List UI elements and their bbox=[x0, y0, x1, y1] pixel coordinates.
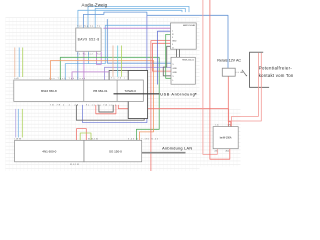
wire sky stub left top bbox=[18, 48, 20, 78]
wire lavender stub left bottom bbox=[15, 109, 17, 138]
wire red relay coil down bbox=[227, 76, 229, 126]
svg-text:31, 31, 1 31: 31, 31, 1 31 bbox=[88, 138, 98, 140]
wire blue amp to main box bbox=[77, 52, 79, 80]
wire salmon stub left top bbox=[14, 48, 16, 78]
relay K1 coil bbox=[222, 68, 235, 76]
svg-text:BAV9 652-8: BAV9 652-8 bbox=[78, 38, 100, 42]
wire lan leader line bbox=[142, 152, 186, 154]
transistor Q4 io module box bbox=[213, 127, 238, 149]
svg-text:9x xx 2a 7A xx x: 9x xx 2a 7A xx x bbox=[86, 103, 116, 106]
svg-text:L a R: L a R bbox=[14, 78, 19, 80]
wire red loop above lan box bbox=[77, 129, 87, 141]
svg-text:3,43 % 7,181 %,45: 3,43 % 7,181 %,45 bbox=[128, 138, 158, 140]
wire lime loop above lan box bbox=[80, 133, 91, 140]
wire purple mid box pin2 bbox=[104, 27, 171, 29]
svg-text:PB 682-01: PB 682-01 bbox=[93, 89, 108, 93]
wire sky stub left bottom bbox=[17, 109, 19, 138]
svg-text:4N1 600-0: 4N1 600-0 bbox=[42, 149, 56, 153]
relay K1 switch lever bbox=[242, 70, 246, 75]
wire blue down right of amp to mid2 pin bbox=[107, 19, 171, 63]
wire audio sky 3 bbox=[78, 10, 182, 27]
capacitor C1 usb hub dark box bbox=[128, 71, 147, 119]
wire orange power rail bbox=[51, 61, 154, 141]
wire royal mid1 to mid2 bbox=[158, 31, 171, 84]
wire red B2 to io box bbox=[118, 105, 231, 127]
op-amp U1 audio amplifier box bbox=[76, 28, 101, 51]
svg-text:24v: 24v bbox=[215, 151, 218, 153]
wire lavender main box to mid2 pin bbox=[105, 67, 172, 80]
node divider 2 bbox=[116, 80, 118, 101]
transistor Q2 power box bbox=[15, 140, 84, 162]
ground bracket bbox=[250, 52, 270, 87]
svg-text:HMW-454-01: HMW-454-01 bbox=[182, 60, 195, 62]
wire periwinkle long relay branch to B2 bbox=[83, 15, 147, 122]
svg-text:kmW-190A: kmW-190A bbox=[220, 137, 232, 140]
wire gray stub mid1 to mid2 a bbox=[176, 49, 178, 57]
wire gray B2 bottom to usb line bbox=[76, 94, 144, 120]
svg-text:Tu Ta Cal Tal: Tu Ta Cal Tal bbox=[77, 54, 102, 56]
wire lime stub above main box bbox=[120, 46, 122, 77]
wire red long to bottom bbox=[151, 41, 171, 171]
wire lime stub left bottom bbox=[21, 109, 23, 138]
transistor Q3 lan gateway box bbox=[84, 140, 142, 162]
op-amp U3 interface box bbox=[171, 57, 195, 84]
wire purple loop under amp bbox=[96, 52, 101, 65]
wire gray loop under main box bbox=[99, 105, 113, 112]
wire red loop under main box bbox=[96, 105, 116, 114]
wire usb leader line bbox=[114, 93, 160, 95]
svg-text:Audio-Zweig: Audio-Zweig bbox=[82, 3, 108, 8]
wire green mid1 to mid2 bbox=[166, 34, 171, 78]
wire audio sky 2 bbox=[95, 8, 185, 27]
svg-text:Lxx Txxh Txk Txxk: Lxx Txxh Txk Txxk bbox=[49, 78, 85, 80]
op-amp U2 dac box bbox=[171, 23, 197, 49]
transistor Q1 main controller box bbox=[14, 80, 144, 101]
wire red 12v feed 2 bbox=[210, 0, 230, 159]
wire sky branch to amp bottom bbox=[88, 52, 90, 64]
svg-text:7B 7H 2 2 2A: 7B 7H 2 2 2A bbox=[50, 103, 79, 106]
node divider 1 bbox=[83, 80, 85, 101]
svg-text:L 18 78: L 18 78 bbox=[15, 138, 21, 140]
svg-text:L in: L in bbox=[216, 125, 219, 127]
svg-text:8N16 650-8: 8N16 650-8 bbox=[41, 89, 57, 93]
wire relay dashed link bbox=[235, 71, 242, 73]
svg-text:MAX9744-AB: MAX9744-AB bbox=[183, 24, 196, 27]
svg-text:Potentialfreier-: Potentialfreier- bbox=[259, 65, 293, 70]
svg-text:SG 150-0: SG 150-0 bbox=[109, 149, 122, 153]
wire red contact 2 bbox=[229, 53, 262, 121]
svg-text:T2S20-0: T2S20-0 bbox=[124, 89, 136, 93]
wire purple main box stub bbox=[72, 72, 109, 80]
svg-text:Anbindung LAN: Anbindung LAN bbox=[162, 147, 192, 151]
svg-text:Relais 12V AC: Relais 12V AC bbox=[217, 58, 241, 62]
wire purple amp to main box bbox=[83, 52, 85, 80]
wire gray main box to mid2 pin bbox=[109, 71, 148, 81]
svg-text:31, 3,2 31: 31, 3,2 31 bbox=[70, 164, 79, 166]
svg-text:GND: GND bbox=[173, 68, 178, 70]
wire cyan stub above main box bbox=[117, 46, 119, 77]
wire gray zigzag mid1 to mid2 bbox=[163, 46, 171, 76]
wire lime stub left top bbox=[22, 48, 24, 78]
wire audio sky 1 bbox=[88, 6, 189, 27]
wire red 12v feed 1 bbox=[203, 0, 217, 154]
wire gray stub mid1 to mid2 b bbox=[179, 49, 181, 57]
svg-text:2bat: 2bat bbox=[226, 150, 230, 153]
svg-text:GND: GND bbox=[172, 41, 177, 43]
wire red contact 1 bbox=[232, 53, 259, 127]
svg-text:kontakt vom Ton: kontakt vom Ton bbox=[259, 73, 294, 78]
svg-text:GND: GND bbox=[173, 72, 178, 74]
svg-text:USB Anbindung: USB Anbindung bbox=[160, 92, 195, 96]
wire green power rail bbox=[60, 57, 159, 140]
wire salmon stub above main box bbox=[112, 46, 114, 77]
svg-text:Tue Tap Ca Ta: Tue Tap Ca Ta bbox=[77, 26, 101, 28]
wire blue audio to relay coil bbox=[83, 12, 228, 68]
wire sky mid box to amp and main box bbox=[65, 25, 170, 80]
wire red mid1 to mid2 bbox=[152, 43, 171, 71]
